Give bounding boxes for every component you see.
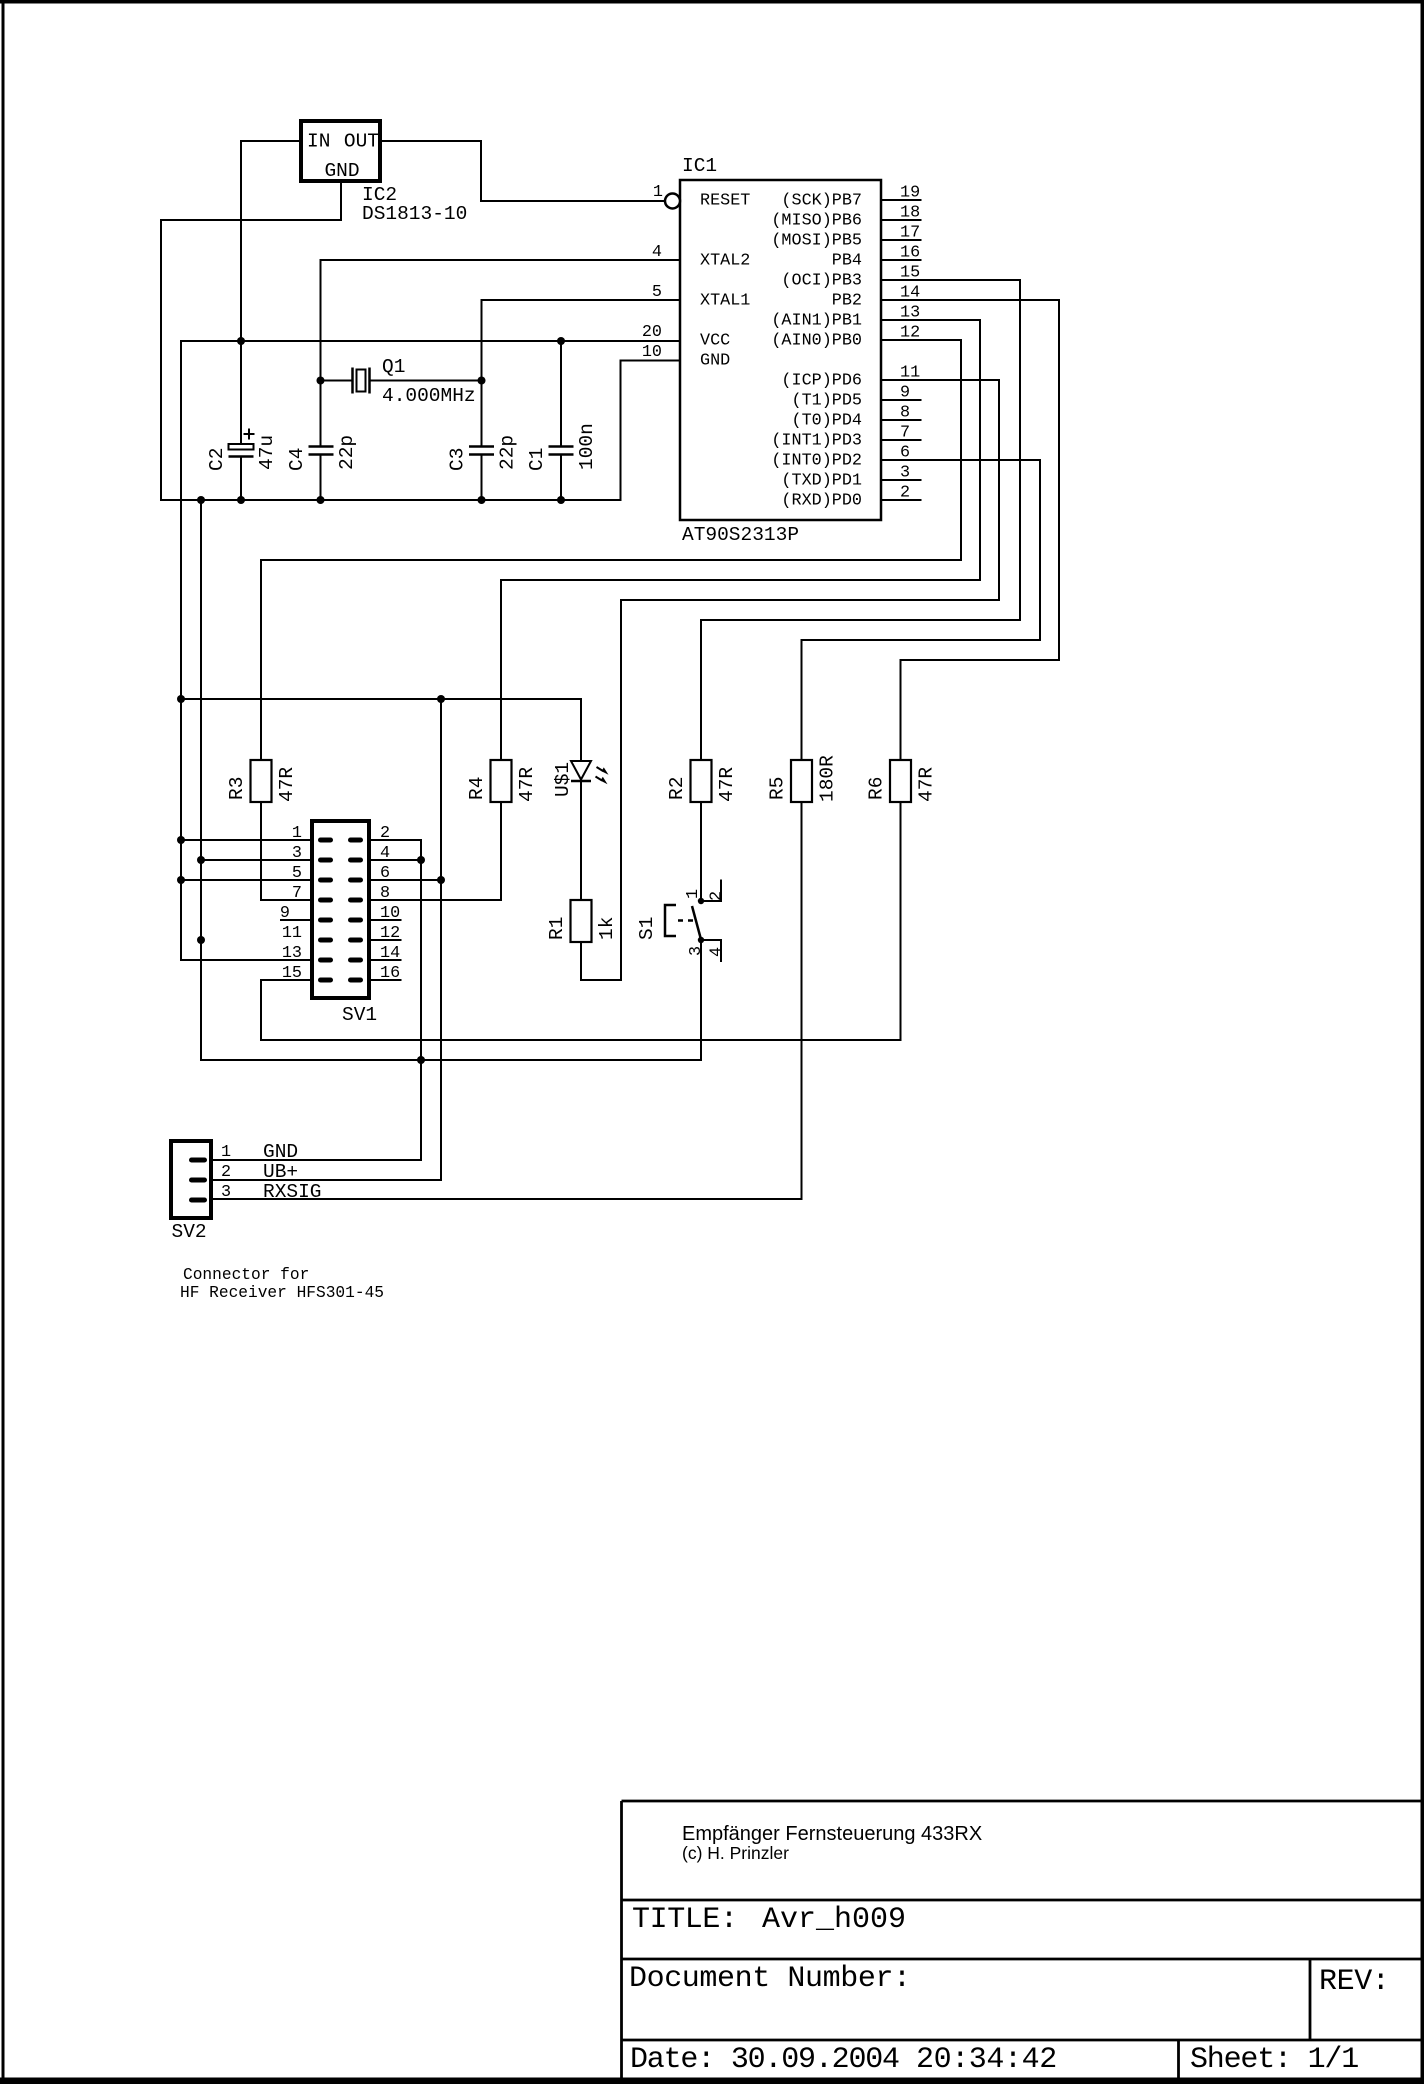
wire IC1 pin 7 stub [881,439,921,441]
wire IC1 pin 2 stub [881,499,921,501]
svg-text:(SCK)PB7: (SCK)PB7 [781,192,862,211]
switch S1 symbol [665,905,701,940]
svg-text:Document Number:: Document Number: [629,1962,911,1996]
svg-text:(MISO)PB6: (MISO)PB6 [771,212,862,231]
svg-text:1: 1 [653,183,663,202]
wire IC1 pin 3 stub [881,479,921,481]
svg-text:7: 7 [900,424,910,443]
svg-text:47R: 47R [516,767,538,802]
wire GND rail y=500 [161,499,621,501]
svg-text:(AIN0)PB0: (AIN0)PB0 [771,332,862,351]
resistor R4 47R [491,760,512,802]
svg-text:6: 6 [380,864,390,883]
svg-text:11: 11 [282,924,302,943]
wire IC2 OUT to IC1 RESET [382,141,665,201]
svg-text:C2: C2 [206,448,228,471]
svg-text:19: 19 [900,184,920,203]
svg-text:XTAL1: XTAL1 [700,292,750,311]
svg-text:R1: R1 [546,917,568,940]
wire R6 bottom to SV1 pin15 [261,802,901,1040]
resistor R1 1k [571,900,592,942]
svg-text:12: 12 [900,324,920,343]
wire SV1 pin 10 stub [371,919,401,921]
wire R4 bottom to SV1 pin8 [371,802,501,900]
svg-text:C1: C1 [526,448,548,471]
svg-text:3: 3 [687,946,706,956]
svg-text:6: 6 [900,444,910,463]
svg-text:(T1)PD5: (T1)PD5 [792,392,863,411]
wire IC1 pin 8 stub [881,419,921,421]
SV2 pads [189,1158,207,1203]
wire R3 bottom to SV1 pin7 [261,802,310,900]
IC2 DS1813-10 box [301,121,380,182]
svg-text:47R: 47R [916,767,938,802]
svg-text:AT90S2313P: AT90S2313P [682,524,799,546]
IC1 pin1 RESET inversion circle [665,194,680,209]
svg-text:PB4: PB4 [832,252,862,271]
IC1 right pin names [771,192,862,511]
svg-text:XTAL2: XTAL2 [700,252,750,271]
svg-text:R3: R3 [226,777,248,800]
svg-text:20:34:42: 20:34:42 [916,2043,1057,2077]
svg-text:(AIN1)PB1: (AIN1)PB1 [771,312,862,331]
svg-text:8: 8 [380,884,390,903]
svg-text:Sheet: 1/1: Sheet: 1/1 [1190,2043,1358,2077]
connector SV1 box [312,821,369,998]
wire C2 bottom lead [240,458,242,501]
wire crystal right lead [370,380,482,382]
svg-text:(RXD)PD0: (RXD)PD0 [781,492,862,511]
S1 pin number labels [684,889,727,957]
svg-text:IN: IN [307,131,330,153]
wire C1 bottom lead [560,455,562,500]
svg-text:47u: 47u [256,435,278,470]
svg-text:7: 7 [292,884,302,903]
svg-text:C3: C3 [447,448,469,471]
svg-text:Avr_h009: Avr_h009 [762,1903,906,1937]
svg-text:47R: 47R [276,767,298,802]
SV2 pin numbers [221,1143,231,1202]
svg-text:UB+: UB+ [263,1161,298,1183]
IC1 left pin names [700,192,750,371]
svg-text:(MOSI)PB5: (MOSI)PB5 [771,232,862,251]
wire R1 top to LED cathode [580,781,582,900]
resistor R5 180R [791,760,812,802]
junction at (320.5,500) [317,496,325,504]
wire IC1 pin 9 stub [881,399,921,401]
svg-text:4.000MHz: 4.000MHz [382,385,476,407]
svg-text:5: 5 [652,283,662,302]
title row [632,1903,906,1937]
svg-text:RXSIG: RXSIG [263,1181,322,1203]
junction at (441,699) [437,695,445,703]
IC1 AT90S2313P box [680,180,881,520]
S1 contact dots [698,898,704,943]
title block frame lines [622,1801,1422,2078]
svg-text:RESET: RESET [700,192,750,211]
wire R2 bottom to S1 pin1 [700,802,702,901]
svg-text:180R: 180R [817,755,839,802]
svg-text:GND: GND [263,1141,298,1163]
svg-text:SV1: SV1 [342,1004,377,1026]
svg-text:R6: R6 [866,777,888,800]
wire IC1 pin12 PB0 to R3 top [261,340,961,760]
svg-text:R4: R4 [466,777,488,800]
IC1 right pin numbers [900,184,920,503]
wire SV1 pin 16 stub [371,979,401,981]
wire SV1 pin9 stub [281,919,310,921]
wire C1 top lead from VCC rail [560,341,562,446]
junction at (201,500) [197,496,205,504]
svg-text:20: 20 [642,323,662,342]
wire SV1 pin2 to GND column x=421 to SV2 pin1 [213,840,421,1160]
svg-text:(INT1)PD3: (INT1)PD3 [771,432,862,451]
svg-text:13: 13 [282,944,302,963]
crystal Q1 symbol [353,368,370,394]
svg-text:17: 17 [900,224,920,243]
svg-text:2: 2 [221,1163,231,1182]
wire IC2 IN to VCC/C2 net [241,141,299,444]
svg-text:Q1: Q1 [382,356,405,378]
svg-text:OUT: OUT [344,131,379,153]
svg-text:1: 1 [221,1143,231,1162]
svg-text:15: 15 [282,964,302,983]
svg-text:1k: 1k [596,917,618,940]
svg-text:16: 16 [380,964,400,983]
junction at (481.5,500) [478,496,486,504]
svg-text:47R: 47R [716,767,738,802]
svg-text:R5: R5 [767,777,789,800]
junction at (201,940) [197,936,205,944]
svg-text:13: 13 [900,304,920,323]
junction at (441,880) [437,876,445,884]
svg-text:4: 4 [380,844,390,863]
svg-text:S1: S1 [636,917,658,940]
wire S1 pin2 stub [701,881,721,902]
svg-text:14: 14 [900,284,920,303]
svg-text:(c) H. Prinzler: (c) H. Prinzler [682,1843,789,1863]
note text connector [180,1266,384,1302]
svg-text:22p: 22p [497,435,519,470]
capacitor C3 22p [469,447,494,455]
wire IC1 pin4 XTAL2 to crystal/C4 [321,260,681,446]
svg-text:TITLE:: TITLE: [632,1903,738,1937]
svg-text:1: 1 [292,824,302,843]
svg-text:SV2: SV2 [172,1221,207,1243]
wire IC1 pin 17 stub [881,239,921,241]
svg-text:Empfänger Fernsteuerung 433RX: Empfänger Fernsteuerung 433RX [682,1823,982,1845]
svg-text:12: 12 [380,924,400,943]
svg-text:2: 2 [380,824,390,843]
junction at (561,500) [557,496,565,504]
capacitor C2 47u [229,429,255,457]
svg-text:4: 4 [708,947,727,957]
junction at (561,341) [557,337,565,345]
svg-text:11: 11 [900,364,920,383]
SV1 pin numbers right [380,824,400,983]
svg-text:IC1: IC1 [682,155,717,177]
svg-text:GND: GND [700,352,730,371]
capacitor C1 100n [549,447,574,455]
wire SV1 pin6 spur to x=441 [371,879,441,881]
wire IC1 pin 16 stub [881,259,921,261]
svg-text:8: 8 [900,404,910,423]
svg-text:U$1: U$1 [552,762,574,797]
wire IC1 pin5 XTAL1 to crystal/C3 [482,300,681,446]
wire VCC rail y=341 to IC1 pin20 [181,340,680,342]
wire S1 pin4 stub [701,940,721,961]
svg-text:(ICP)PD6: (ICP)PD6 [781,372,862,391]
junction at (241,500) [237,496,245,504]
junction at (421,1060) [417,1056,425,1064]
wire crystal left lead [321,380,353,382]
junction at (181,880) [177,876,185,884]
wire GND column x=201 to S1 pin3 (y=1060) [201,500,701,1060]
wire IC1 pin10 GND [621,361,681,501]
svg-text:(T0)PD4: (T0)PD4 [792,412,863,431]
capacitor C4 22p [309,447,334,455]
junction at (320.5,380.5) [317,377,325,385]
svg-text:VCC: VCC [700,332,730,351]
junction at (241,341) [237,337,245,345]
resistor R6 47R [890,760,911,802]
wire SV1 pin 12 stub [371,939,401,941]
svg-text:15: 15 [900,264,920,283]
LED U$1 [571,761,609,784]
junction at (181,840) [177,836,185,844]
connector SV2 box [171,1141,211,1218]
svg-text:HF Receiver HFS301-45: HF Receiver HFS301-45 [180,1284,384,1302]
SV1 pin numbers left [280,824,302,983]
wire IC1 pin6 PD2 to R5 top [802,460,1041,760]
resistor R3 47R [251,760,272,802]
resistor R2 47R [691,760,712,802]
wire SV1 pin1 wire [181,839,310,841]
svg-text:3: 3 [900,464,910,483]
svg-text:100n: 100n [576,423,598,470]
svg-text:14: 14 [380,944,400,963]
svg-text:1: 1 [684,889,703,899]
wire SV1 pin4 spur to x=421 [371,859,421,861]
svg-text:(INT0)PD2: (INT0)PD2 [771,452,862,471]
wire C4 bottom lead [320,455,322,500]
junction at (181,699) [177,695,185,703]
wire IC2 GND down-left to GND rail [161,183,341,500]
junction at (481.5,380.5) [478,377,486,385]
wire IC1 pin15 PB3 to R2 top [701,280,1020,760]
svg-text:5: 5 [292,864,302,883]
svg-text:3: 3 [221,1183,231,1202]
junction at (201,860) [197,856,205,864]
svg-text:Date: 30.09.2004: Date: 30.09.2004 [630,2043,899,2077]
svg-text:9: 9 [280,904,290,923]
wire R5 bottom to SV2 pin3 RXSIG [213,802,802,1199]
wire LED anode to VCC junction rail y=699 [181,699,581,760]
svg-text:(TXD)PD1: (TXD)PD1 [781,472,862,491]
wire IC1 pin13 PB1 to R4 top [501,320,980,760]
svg-text:R2: R2 [666,777,688,800]
svg-text:9: 9 [900,384,910,403]
wire IC1 pin 18 stub [881,219,921,221]
wire SV1 pin5 wire [181,879,310,881]
svg-text:10: 10 [642,343,662,362]
svg-text:4: 4 [652,243,662,262]
IC1 left pin numbers [642,183,663,362]
svg-text:REV:: REV: [1319,1965,1389,1999]
svg-text:DS1813-10: DS1813-10 [362,203,467,225]
wire IC1 pin11 PD6 to R1 bottom [581,380,999,980]
svg-text:18: 18 [900,204,920,223]
wire VCC column x=441 to SV2 pin2 UB+ [213,699,441,1180]
wire IC1 pin 19 stub [881,199,921,201]
svg-text:3: 3 [292,844,302,863]
svg-text:Connector for: Connector for [183,1266,309,1284]
svg-text:22p: 22p [336,435,358,470]
svg-text:16: 16 [900,244,920,263]
wire SV1 pin3 wire [201,859,310,861]
svg-text:10: 10 [380,904,400,923]
svg-text:2: 2 [708,891,727,901]
wire SV1 pin 14 stub [371,959,401,961]
svg-text:(OCI)PB3: (OCI)PB3 [781,272,862,291]
junction at (421,860) [417,856,425,864]
wire VCC column x=181 to SV1 pin13 [181,341,310,960]
svg-text:GND: GND [324,160,359,182]
date row [630,2043,1057,2077]
svg-text:2: 2 [900,484,910,503]
svg-text:PB2: PB2 [832,292,862,311]
wire IC1 pin14 PB2 to R6 top [881,300,1059,760]
SV1 pads [318,838,363,983]
wire C3 bottom lead [481,455,483,500]
svg-text:C4: C4 [286,448,308,471]
